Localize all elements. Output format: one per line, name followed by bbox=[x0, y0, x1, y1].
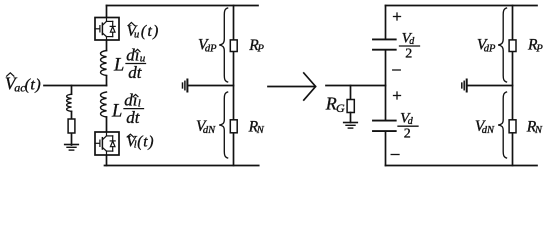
svg-text:(t): (t) bbox=[137, 133, 154, 150]
svg-text:R: R bbox=[325, 93, 337, 113]
svg-text:dP: dP bbox=[484, 43, 496, 54]
svg-text:N: N bbox=[534, 125, 543, 136]
svg-text:dı: dı bbox=[124, 91, 137, 110]
svg-text:G: G bbox=[336, 101, 345, 115]
svg-text:N: N bbox=[256, 125, 265, 136]
svg-text:dt: dt bbox=[128, 63, 143, 82]
svg-text:P: P bbox=[257, 44, 265, 55]
svg-text:L: L bbox=[113, 56, 124, 76]
svg-text:dN: dN bbox=[203, 125, 216, 136]
svg-text:P: P bbox=[535, 43, 543, 54]
svg-text:(t): (t) bbox=[25, 76, 42, 93]
svg-text:dN: dN bbox=[482, 125, 495, 136]
svg-text:L: L bbox=[111, 102, 122, 122]
svg-text:dP: dP bbox=[205, 43, 217, 54]
svg-text:(t): (t) bbox=[141, 23, 160, 40]
svg-text:2: 2 bbox=[405, 46, 412, 61]
svg-text:u: u bbox=[134, 29, 139, 40]
svg-text:2: 2 bbox=[404, 127, 411, 142]
svg-text:dt: dt bbox=[126, 108, 141, 127]
svg-text:dı: dı bbox=[126, 46, 139, 65]
